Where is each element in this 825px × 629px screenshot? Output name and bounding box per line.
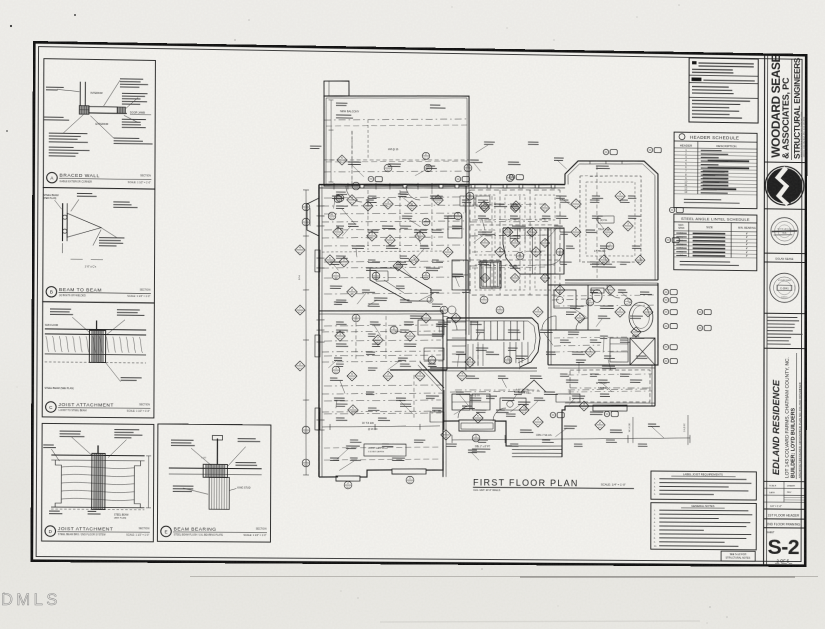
svg-text:DMLS: DMLS: [1, 591, 61, 609]
